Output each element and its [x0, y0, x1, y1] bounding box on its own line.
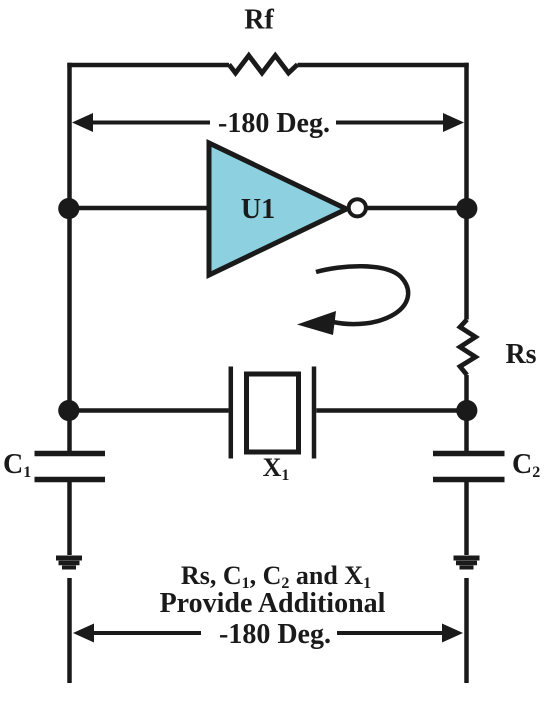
top -180 Deg. measurement arrow left segment: [88, 121, 210, 125]
op-amp U1 inverter triangle: [209, 143, 347, 275]
svg-text:-180 Deg.: -180 Deg.: [218, 108, 330, 139]
bottom -180 Deg. measurement arrow right segment: [337, 631, 448, 635]
wire C2 to ground: [464, 482, 469, 555]
wire top-right horizontal from Rf: [298, 63, 469, 68]
bottom measurement right arrowhead: [442, 624, 463, 643]
resistor Rf: [229, 56, 298, 74]
wire right vertical upper: [464, 63, 469, 320]
node left input junction: [58, 198, 79, 219]
svg-text:Rs: Rs: [505, 339, 536, 370]
wire crystal left lead: [70, 408, 229, 413]
ground left: [56, 558, 82, 568]
wire right below Rs: [464, 375, 469, 451]
capacitor C1 bottom plate: [35, 477, 106, 483]
top measurement left arrowhead: [72, 113, 93, 132]
wire U1 input: [70, 206, 210, 211]
ground right: [454, 558, 480, 568]
feedback arrowhead: [297, 311, 336, 335]
svg-text:-180 Deg.: -180 Deg.: [219, 619, 331, 650]
bottom measurement left arrowhead: [73, 624, 94, 643]
crystal X1 left plate: [229, 367, 234, 459]
inverter bubble: [349, 199, 366, 216]
extension line bottom left: [67, 578, 72, 683]
node crystal left junction: [58, 400, 79, 421]
node crystal right junction: [456, 400, 477, 421]
svg-text:Provide Additional: Provide Additional: [160, 588, 386, 619]
wire top-left horizontal to Rf: [67, 63, 229, 68]
capacitor C2 top plate: [433, 451, 505, 457]
wire crystal right lead: [316, 408, 466, 413]
node right output junction: [456, 198, 477, 219]
wire U1 output: [366, 206, 467, 211]
wire left vertical: [67, 63, 72, 451]
crystal X1 right plate: [312, 367, 317, 459]
feedback loop curved arrow: [316, 266, 408, 324]
bottom -180 Deg. measurement arrow left segment: [88, 631, 201, 635]
extension line bottom right: [464, 578, 469, 683]
resistor Rs: [460, 320, 476, 376]
svg-text:U1: U1: [241, 194, 275, 225]
top measurement right arrowhead: [443, 113, 464, 132]
capacitor C2 bottom plate: [433, 477, 505, 483]
crystal X1 body: [247, 374, 299, 452]
svg-text:Rf: Rf: [244, 5, 274, 36]
capacitor C1 top plate: [35, 451, 106, 457]
top -180 Deg. measurement arrow right segment: [336, 121, 448, 125]
wire C1 to ground: [67, 482, 72, 555]
